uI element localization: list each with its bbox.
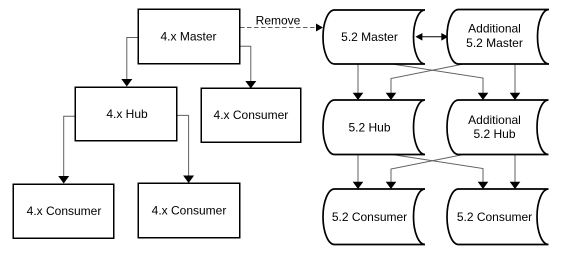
svg-text:4.x Consumer: 4.x Consumer [27, 204, 102, 218]
svg-text:4.x Hub: 4.x Hub [106, 107, 148, 121]
wire 4.x Master to 4.x Consumer (middle) [240, 46, 256, 88]
dashed arrow Remove (4.x Master to 5.2 Master) [240, 24, 323, 32]
stored-data shape Additional 5.2 Master [447, 10, 549, 65]
wire 4.x Master to 4.x Hub [121, 38, 138, 87]
svg-text:5.2 Hub: 5.2 Hub [473, 127, 515, 141]
svg-text:5.2 Master: 5.2 Master [341, 30, 398, 44]
wire 5.2 Master to Additional 5.2 Hub (diagonal) [392, 64, 488, 100]
svg-text:5.2 Consumer: 5.2 Consumer [332, 210, 407, 224]
wire Additional 5.2 Master to 5.2 Hub (diagonal) [386, 64, 464, 100]
stored-data shape 5.2 Hub [323, 100, 425, 155]
wire 4.x Hub to 4.x Consumer (bottom left) [58, 116, 75, 183]
stored-data shape Additional 5.2 Hub [447, 100, 548, 155]
svg-text:Remove: Remove [256, 14, 301, 28]
box 4.x Consumer (bottom left) [13, 184, 114, 238]
box 4.x Consumer (middle) [201, 88, 301, 142]
double arrow 5.2 Master to Additional 5.2 Master [415, 33, 448, 41]
wire Additional 5.2 Hub to right 5.2 Consumer (vertical) [510, 155, 521, 190]
svg-text:5.2 Hub: 5.2 Hub [348, 121, 390, 135]
svg-text:4.x Consumer: 4.x Consumer [214, 108, 289, 122]
wire 5.2 Hub to right 5.2 Consumer (diagonal) [392, 155, 488, 190]
svg-text:4.x Master: 4.x Master [160, 29, 216, 43]
box 4.x Hub [75, 87, 177, 141]
stored-data shape 5.2 Consumer (right) [447, 189, 549, 245]
wire 5.2 Hub to 5.2 Consumer (vertical) [353, 155, 364, 190]
svg-text:4.x Consumer: 4.x Consumer [152, 203, 227, 217]
svg-text:Additional: Additional [468, 22, 521, 36]
stored-data shape 5.2 Master [323, 10, 425, 64]
wire 4.x Hub to 4.x Consumer (bottom middle) [177, 115, 194, 183]
wire Additional 5.2 Hub to 5.2 Consumer (diagonal) [386, 155, 464, 190]
svg-text:Additional: Additional [468, 113, 521, 127]
wire Additional 5.2 Master to Additional 5.2 Hub (vertical) [510, 64, 521, 100]
box 4.x Master [138, 9, 240, 64]
wire 5.2 Master to 5.2 Hub (vertical) [353, 64, 364, 100]
svg-text:5.2 Master: 5.2 Master [466, 36, 523, 50]
box 4.x Consumer (bottom middle) [138, 183, 240, 238]
svg-text:5.2 Consumer: 5.2 Consumer [457, 210, 532, 224]
stored-data shape 5.2 Consumer [323, 189, 425, 245]
